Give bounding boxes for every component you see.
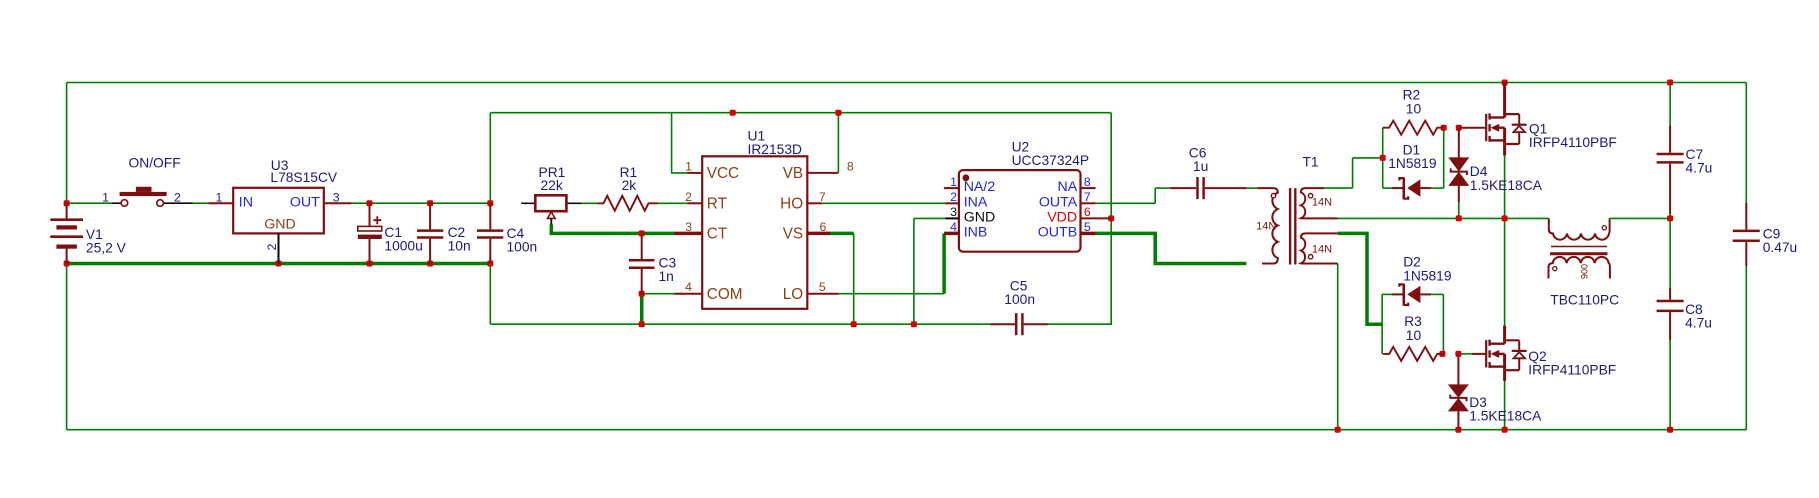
wire Q2 gate link	[1458, 353, 1472, 355]
pin 7 stub of U1 HO	[807, 202, 822, 204]
wire left vertical lower	[66, 264, 68, 430]
pin 1 stub of U2	[944, 187, 959, 189]
pin 2 stub of U3 (GND)	[278, 233, 280, 263]
svg-text:7: 7	[1084, 190, 1091, 204]
capacitor C2 10n	[417, 203, 443, 263]
junction C2 top	[427, 200, 433, 206]
junction C8 bottom on ground rail	[1667, 427, 1673, 433]
junction C4 bottom on ground	[487, 261, 493, 267]
Q1 source lead	[1503, 144, 1506, 156]
wire +15V riser at C4	[489, 113, 491, 204]
svg-text:IN: IN	[239, 194, 253, 210]
junction D4 top / Q1 gate	[1456, 125, 1462, 131]
capacitor C6 1u	[1170, 177, 1246, 199]
junction VDD pin	[1108, 215, 1114, 221]
wire PR1 to R1	[581, 202, 597, 204]
junction R3 right / D2 loop	[1439, 351, 1445, 357]
svg-text:OUT: OUT	[290, 194, 320, 210]
wire choke to C7/C8 node	[1610, 217, 1671, 219]
junction on VCC rail	[730, 110, 736, 116]
choke core thin line	[1551, 246, 1607, 248]
pin 8 stub of U1 VB	[807, 172, 838, 174]
wire T1 sec bottom to ground	[1337, 264, 1339, 430]
svg-text:2: 2	[950, 190, 957, 204]
svg-text:INA: INA	[964, 194, 988, 210]
svg-text:GND: GND	[964, 209, 996, 225]
svg-text:7: 7	[819, 190, 826, 204]
junction C3 top at CT net	[639, 230, 645, 236]
svg-text:14N: 14N	[1312, 197, 1332, 209]
wire right vertical upper (C9 branch)	[1745, 83, 1747, 204]
svg-text:4: 4	[950, 220, 957, 234]
svg-text:NA: NA	[1057, 179, 1077, 195]
svg-text:1N5819: 1N5819	[1403, 268, 1452, 283]
wire ground rail left (bold)	[67, 262, 491, 266]
inductor choke TBC110PC top winding	[1549, 218, 1610, 239]
wire C5 right to VDD riser	[1049, 323, 1112, 325]
wire LO riser to U2 INB (bold)	[942, 233, 946, 293]
T1 core	[1289, 188, 1291, 264]
svg-text:1000u: 1000u	[384, 239, 422, 254]
wire to D1 anode node	[1353, 157, 1383, 159]
wire battery to switch	[67, 202, 112, 204]
capacitor C1 1000u (polarized)	[358, 203, 382, 263]
diode D3 1.5KE18CA	[1448, 354, 1469, 430]
wire U2 OUTA right	[1096, 202, 1156, 204]
svg-text:3: 3	[685, 220, 692, 234]
svg-text:22k: 22k	[541, 178, 563, 193]
junction Q1 drain on top rail	[1502, 80, 1508, 86]
junction D3 bottom on ground rail	[1455, 427, 1461, 433]
svg-text:VCC: VCC	[707, 165, 739, 182]
junction Q2 source on ground rail	[1502, 427, 1508, 433]
wire bottom ground rail	[67, 429, 1747, 431]
op-amp U1 IR2153D box	[702, 156, 807, 308]
junction U2 GND drop on ground line	[911, 321, 917, 327]
junction Q1 source / Q2 drain on mid rail	[1502, 215, 1508, 221]
svg-text:3: 3	[950, 205, 957, 219]
wire C8 bottom link	[1669, 340, 1671, 430]
svg-text:IR2153D: IR2153D	[748, 142, 802, 157]
wire VB drop to U1 pin8	[837, 113, 839, 173]
wire D1 right link	[1431, 187, 1444, 189]
junction VB drop on VCC rail	[835, 110, 841, 116]
wire switch to U3 IN	[193, 202, 209, 204]
svg-text:1: 1	[685, 159, 692, 173]
wire T1 sec-top to D1 node	[1324, 187, 1352, 189]
svg-text:LO: LO	[783, 286, 804, 303]
wire VDD riser	[1108, 113, 1111, 325]
wire ground drop at C4	[489, 264, 491, 325]
svg-text:CT: CT	[707, 226, 727, 243]
Q2 mosfet symbol	[1486, 340, 1527, 371]
svg-text:2k: 2k	[622, 178, 637, 193]
Q2 source lead	[1503, 370, 1506, 381]
junction VS drop on ground line	[851, 321, 857, 327]
pin 4 stub of U1 COM	[674, 293, 702, 295]
svg-text:5: 5	[819, 280, 826, 294]
wire output mid rail	[1338, 217, 1549, 219]
pin 2 stub of U1 RT	[687, 202, 702, 204]
wire right vertical lower (C9 branch)	[1745, 266, 1747, 430]
wire D1 loop right vertical	[1443, 128, 1445, 188]
svg-text:25,2 V: 25,2 V	[86, 240, 127, 255]
wire U2 OUTB to T1 primary bottom (bold)	[1096, 233, 1247, 263]
svg-text:INB: INB	[964, 224, 988, 240]
wire left vertical upper	[66, 83, 68, 204]
wire U2 GND drop	[913, 218, 915, 324]
T1 primary phasing dot	[1271, 194, 1275, 198]
wire D2 right link	[1431, 293, 1443, 295]
svg-text:RT: RT	[707, 195, 727, 212]
svg-text:5: 5	[1084, 220, 1091, 234]
svg-text:IRFP4110PBF: IRFP4110PBF	[1529, 135, 1617, 150]
pin 5 stub of U1 LO	[807, 293, 839, 295]
wire U1 VS stub extension (bold)	[830, 232, 854, 236]
pin 5 stub of U2 (bold)	[1081, 232, 1096, 236]
wire COM ground drop (bold)	[640, 294, 644, 325]
wire D4 bottom link	[1458, 202, 1460, 218]
svg-text:4: 4	[685, 280, 692, 294]
wire VCC drop to U1 pin1	[672, 113, 688, 173]
junction C3 bottom at COM net	[639, 291, 645, 297]
pin 1 stub of U1 VCC	[687, 172, 702, 174]
capacitor C5 100n	[990, 313, 1049, 335]
pin 6 stub of U1 VS (bold)	[807, 232, 830, 236]
svg-text:14N: 14N	[1312, 244, 1332, 256]
junction choke to C7 C8 node	[1667, 215, 1673, 221]
pin 3 stub of U3	[324, 202, 352, 204]
wire C6 to T1 primary top	[1246, 187, 1257, 189]
wire D2 left link	[1382, 293, 1392, 295]
potentiometer PR1 22k	[521, 195, 581, 224]
svg-text:1.5KE18CA: 1.5KE18CA	[1470, 178, 1543, 193]
svg-text:UCC37324P: UCC37324P	[1012, 153, 1089, 168]
svg-text:COM: COM	[707, 286, 743, 303]
wire U2 GND left	[914, 217, 945, 219]
pin 7 stub of U2	[1081, 202, 1096, 204]
diode D2 1N5819	[1392, 284, 1431, 306]
diode D4 1.5KE18CA	[1448, 128, 1469, 203]
wire mid rail to Q2 drain	[1504, 218, 1506, 325]
svg-text:IRFP4110PBF: IRFP4110PBF	[1528, 362, 1616, 377]
transformer T1 primary winding	[1257, 188, 1278, 263]
svg-text:R2: R2	[1403, 87, 1421, 102]
svg-text:TBC110PC: TBC110PC	[1550, 293, 1619, 308]
wire U1 HO to U2 INA	[822, 202, 945, 204]
junction T1 secondary bottom on ground rail	[1335, 427, 1341, 433]
wire U1 LO to riser	[839, 293, 944, 295]
svg-text:GND: GND	[264, 216, 296, 232]
pin 3 stub of U2 (GND)	[945, 217, 959, 219]
pin 8 stub of U2	[1081, 187, 1096, 189]
svg-text:900: 900	[1580, 264, 1590, 279]
svg-text:OUTB: OUTB	[1038, 224, 1077, 240]
wire D2 loop left vertical	[1381, 294, 1383, 354]
wire VCC top rail	[490, 112, 1111, 114]
svg-text:4.7u: 4.7u	[1686, 160, 1713, 175]
svg-text:8: 8	[847, 159, 854, 173]
wire OUTA to C6	[1155, 187, 1170, 189]
svg-text:6: 6	[820, 220, 827, 234]
wire Q2 source to ground	[1504, 381, 1506, 430]
junction C4 top on +15V net	[487, 200, 493, 206]
svg-text:T1: T1	[1303, 155, 1319, 170]
wire R1 to U1 RT	[658, 202, 687, 204]
svg-text:4.7u: 4.7u	[1685, 315, 1712, 330]
svg-text:ON/OFF: ON/OFF	[129, 156, 181, 171]
wire PR1 wiper to U1 CT (bold)	[551, 224, 674, 233]
svg-text:8: 8	[1084, 175, 1091, 189]
junction D3 top / Q2 gate	[1455, 351, 1461, 357]
Q1 gate lead	[1459, 127, 1486, 129]
wire D1 loop left vertical	[1382, 128, 1384, 188]
junction COM drop on ground line	[639, 321, 645, 327]
wire +15V rail after U3	[351, 202, 490, 204]
choke phasing dot top	[1602, 226, 1606, 230]
capacitor C8 4.7u	[1657, 288, 1684, 340]
junction battery minus node	[64, 261, 70, 267]
battery V1 25,2V	[50, 203, 83, 263]
pin 6 stub of U2 VDD	[1081, 217, 1112, 219]
regulator U3 L78S15CV box	[233, 188, 324, 234]
junction C2 bottom	[427, 261, 433, 267]
wire C7 top link	[1669, 83, 1671, 126]
choke TBC110PC bottom winding	[1549, 257, 1610, 279]
resistor R1 2k	[598, 196, 659, 211]
pin 3 stub of U1 CT (bold)	[674, 232, 702, 236]
T1 secondary winding bottom	[1301, 233, 1338, 263]
svg-text:1u: 1u	[1193, 159, 1208, 174]
svg-text:2: 2	[685, 190, 692, 204]
pin 2 stub of U2	[945, 202, 959, 204]
switch ON/OFF	[112, 187, 193, 207]
op-amp U2 UCC37324P box	[959, 170, 1081, 252]
wire C7-C8 mid links	[1669, 214, 1671, 288]
svg-text:100n: 100n	[507, 240, 538, 255]
svg-text:10n: 10n	[448, 239, 471, 254]
svg-text:1: 1	[102, 190, 109, 204]
svg-text:2: 2	[174, 190, 181, 204]
svg-text:1: 1	[216, 190, 223, 204]
T1 secondary phasing dot bottom	[1308, 255, 1312, 259]
svg-text:10: 10	[1406, 328, 1422, 343]
capacitor C3 1n	[629, 233, 655, 293]
capacitor C7 4.7u	[1657, 126, 1684, 215]
wire D1 left link	[1383, 187, 1392, 189]
svg-text:6: 6	[1084, 205, 1091, 219]
svg-text:1N5819: 1N5819	[1388, 156, 1437, 171]
junction battery plus node	[64, 200, 70, 206]
svg-text:2: 2	[265, 243, 279, 250]
choke phasing dot bottom	[1553, 267, 1557, 271]
svg-text:0.47u: 0.47u	[1763, 240, 1798, 255]
svg-text:1n: 1n	[659, 269, 674, 284]
Q1 drain lead	[1503, 83, 1506, 114]
svg-text:14N: 14N	[1256, 220, 1276, 232]
Q2 gate lead	[1472, 353, 1486, 355]
svg-text:HO: HO	[780, 195, 803, 212]
Q2 drain lead	[1503, 326, 1506, 340]
svg-text:1.5KE18CA: 1.5KE18CA	[1469, 409, 1542, 424]
junction C1 top	[367, 200, 373, 206]
wire C3 to U1 COM	[642, 293, 675, 295]
capacitor C4 100n	[477, 203, 503, 263]
wire top +25V rail	[67, 82, 1747, 84]
svg-text:VB: VB	[783, 165, 803, 182]
wire D2 loop right vertical	[1442, 294, 1444, 354]
pin 1 marker dot of U2	[963, 174, 970, 181]
wire OUTA riser	[1154, 188, 1156, 203]
resistor R3 10	[1383, 347, 1443, 361]
pin 1 stub of U3	[208, 202, 233, 204]
svg-text:OUTA: OUTA	[1039, 194, 1078, 210]
svg-text:NA/2: NA/2	[964, 179, 996, 195]
T1 secondary phasing dot top	[1308, 194, 1312, 198]
svg-text:100n: 100n	[1004, 292, 1035, 307]
junction D4 bottom on mid rail	[1456, 215, 1462, 221]
wire Q1 source to mid rail	[1504, 155, 1506, 218]
T1 secondary winding top	[1301, 188, 1338, 218]
junction C1 bottom	[367, 261, 373, 267]
wire ground line under U1	[490, 323, 990, 325]
svg-text:VS: VS	[783, 226, 803, 243]
junction C7 top on top rail	[1667, 80, 1673, 86]
svg-text:VDD: VDD	[1047, 209, 1077, 225]
choke core thick line	[1550, 252, 1608, 255]
svg-text:10: 10	[1406, 102, 1422, 117]
diode D1 1N5819	[1392, 177, 1431, 199]
capacitor C9 0.47u	[1733, 203, 1760, 266]
svg-text:1: 1	[950, 175, 957, 189]
wire VS drop to ground line	[853, 233, 855, 324]
junction U3 GND on ground rail	[276, 261, 282, 267]
svg-text:L78S15CV: L78S15CV	[270, 170, 338, 185]
Q1 mosfet symbol	[1486, 113, 1527, 144]
wire riser at T1 secondary	[1352, 158, 1354, 188]
junction R2 right / D1 loop	[1441, 125, 1447, 131]
svg-text:3: 3	[333, 190, 340, 204]
resistor R2 10	[1383, 121, 1444, 135]
pin 4 stub of U2 (bold)	[944, 232, 959, 236]
junction T1 secondary to D1 node	[1380, 155, 1386, 161]
wire T1 sec-bot to D2 node (bold)	[1338, 233, 1382, 324]
